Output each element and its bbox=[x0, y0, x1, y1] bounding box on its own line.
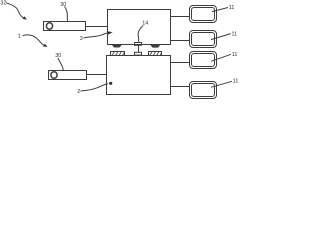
wire block 2 to device box 11c bbox=[171, 62, 190, 64]
leader line label 2 with dot bbox=[81, 84, 109, 92]
svg-text:3: 3 bbox=[80, 36, 83, 42]
device box 11c outer bbox=[190, 52, 217, 69]
leader line label 30 upper bbox=[65, 7, 68, 22]
leader line label 11d bbox=[211, 81, 232, 87]
svg-text:30: 30 bbox=[60, 2, 66, 8]
wire block 3 to device box 11a bbox=[171, 16, 190, 18]
interconnect 14 upper plate bbox=[135, 43, 142, 46]
oscillator box 30 (lower) bbox=[49, 71, 87, 80]
leader line label 11b bbox=[211, 34, 231, 40]
crosshatched pad right on block 2 bbox=[149, 52, 162, 56]
svg-text:2: 2 bbox=[77, 89, 80, 95]
wire from upper oscillator to block 3 bbox=[86, 26, 108, 28]
interconnect 14 stem bbox=[138, 45, 140, 52]
svg-text:14: 14 bbox=[142, 21, 148, 27]
wire block 3 to device box 11b bbox=[171, 40, 190, 42]
svg-text:11: 11 bbox=[233, 79, 239, 85]
leader line label 11a bbox=[212, 8, 228, 12]
leader line label 14 bbox=[138, 26, 143, 43]
block 3 (upper substrate) bbox=[108, 10, 171, 45]
bump pad right under block 3 bbox=[150, 45, 161, 48]
oscillator box 30 (upper) bbox=[44, 22, 86, 31]
crosshatched pad left on block 2 bbox=[111, 52, 125, 56]
device box 11b inner bbox=[192, 33, 215, 46]
oscillator symbol 0 (lower) bbox=[51, 72, 57, 79]
device box 11c inner bbox=[192, 54, 215, 67]
leader arrow label 3 bbox=[84, 33, 108, 38]
wire block 2 to device box 11d bbox=[171, 86, 190, 88]
block 2 (lower substrate) bbox=[107, 56, 171, 95]
bump pad left under block 3 bbox=[112, 45, 123, 48]
device box 11d inner bbox=[192, 84, 215, 97]
leader line label 11c bbox=[211, 54, 231, 61]
svg-text:11: 11 bbox=[229, 5, 235, 11]
svg-text:32: 32 bbox=[0, 0, 6, 6]
device box 11d outer bbox=[190, 82, 217, 99]
svg-text:1: 1 bbox=[18, 34, 21, 40]
device box 11a outer bbox=[190, 6, 217, 23]
oscillator symbol 0 (upper) bbox=[46, 23, 52, 30]
wire from lower oscillator to block 2 bbox=[87, 74, 107, 76]
interconnect 14 lower plate bbox=[135, 52, 142, 55]
svg-text:11: 11 bbox=[232, 31, 238, 37]
leader line label 30 lower bbox=[58, 58, 63, 70]
device box 11a inner bbox=[192, 8, 215, 21]
device box 11b outer bbox=[190, 31, 217, 48]
leader arrow label 1 bbox=[23, 35, 44, 45]
svg-text:11: 11 bbox=[232, 52, 238, 58]
leader arrow label 32 bbox=[6, 3, 24, 18]
svg-text:30: 30 bbox=[55, 53, 61, 59]
